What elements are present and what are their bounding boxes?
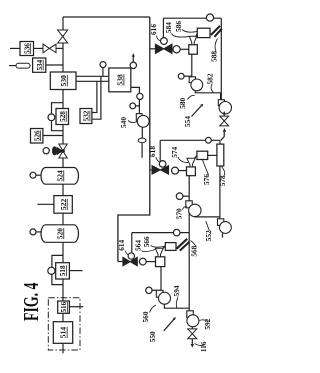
svg-text:616: 616	[149, 24, 158, 35]
wire vent line above 538	[132, 56, 134, 62]
wire 530-538 upper	[76, 75, 109, 77]
controller box 536	[20, 42, 34, 56]
pump 582	[189, 77, 203, 91]
instrument circle after 614	[139, 258, 146, 265]
arrow line 554	[192, 105, 202, 116]
svg-text:566: 566	[142, 236, 151, 247]
wire pump 582 discharge	[195, 90, 220, 99]
instrument circle at pump 582 suction	[178, 73, 184, 79]
vessel 524	[41, 168, 79, 185]
wire to feeder 574	[179, 170, 187, 172]
wire gauge stub 570	[183, 195, 189, 197]
controller box 534	[33, 58, 46, 72]
valve product outlet	[188, 329, 197, 339]
wire 524 to 522	[62, 184, 64, 195]
actuator circle of valve 616	[161, 38, 168, 45]
wire 528 to valve	[62, 125, 64, 145]
svg-text:520: 520	[55, 228, 64, 239]
separator box 538	[109, 68, 131, 92]
hopper funnel of 564	[155, 248, 163, 257]
leader 566	[151, 246, 166, 248]
instrument circle on bottom header	[173, 229, 180, 236]
svg-text:530: 530	[59, 75, 68, 87]
instrument circle on top-right header	[206, 14, 213, 21]
svg-text:552: 552	[204, 230, 213, 241]
vessel 520	[41, 225, 79, 243]
instrument circle on 518 bypass	[48, 267, 55, 274]
valve main control valve	[59, 144, 67, 158]
actuator circle	[43, 148, 49, 154]
wire pump 570 discharge	[195, 215, 220, 218]
svg-text:582: 582	[205, 73, 214, 84]
wire feeder 574 down-line	[188, 176, 190, 311]
wire 576 to column	[208, 154, 217, 156]
wire inlet to 536	[10, 47, 20, 49]
wire 518 to 516	[62, 279, 64, 301]
controller box 528	[56, 109, 69, 125]
leader 564	[142, 249, 157, 252]
leader 588	[215, 39, 217, 52]
svg-text:524: 524	[55, 170, 64, 181]
wire bypass bracket around 518	[52, 255, 63, 284]
wire top-right header	[163, 17, 221, 19]
wire actuator stem 618	[159, 140, 161, 161]
svg-text:526: 526	[33, 130, 41, 141]
svg-text:580: 580	[178, 97, 187, 108]
instrument circle after 616	[173, 46, 180, 53]
wire right recycle riser	[220, 18, 222, 100]
instrument circle left of 524	[30, 172, 36, 178]
inline element capsule on 534 feed	[16, 63, 30, 68]
leader 614	[125, 251, 129, 256]
wire outlet below valve	[191, 339, 193, 344]
wire pump 552 outlet stub	[222, 233, 224, 237]
hopper funnel of 574	[187, 158, 195, 167]
actuator wedge on main valve	[57, 147, 63, 156]
valve top-left vertical	[58, 30, 68, 43]
svg-text:570: 570	[174, 208, 183, 219]
svg-text:574: 574	[170, 146, 179, 157]
wire 530 to 528	[62, 90, 64, 109]
exchanger rect 586	[197, 28, 210, 37]
pump 560	[156, 290, 170, 304]
feeder hopper box 584	[189, 45, 198, 55]
instrument circle above 530-538 line	[100, 62, 106, 68]
wire gauge stub 582	[184, 75, 192, 77]
wire mid-right header	[160, 139, 220, 141]
wire feeder 564 down-line	[160, 267, 162, 291]
pump 580	[218, 100, 231, 114]
controller box 532	[80, 109, 92, 124]
arrowhead up into pump 580	[223, 111, 226, 115]
instrument circle left of 520	[30, 229, 36, 235]
wire pump 580 suction below	[223, 114, 225, 116]
leader 574	[178, 157, 188, 163]
svg-text:514: 514	[59, 327, 68, 339]
instrument circle on 538 vent	[130, 62, 136, 68]
leader 592	[200, 320, 209, 322]
wire left inlet to 522	[37, 203, 54, 205]
svg-text:538: 538	[116, 74, 125, 86]
leader 578	[222, 167, 225, 176]
wire bottom header	[132, 232, 189, 234]
pump 570	[186, 201, 201, 217]
wire drop B to 532	[92, 76, 101, 119]
instrument circle at 560 suction	[146, 287, 152, 293]
leader 576	[203, 160, 209, 175]
svg-text:516: 516	[60, 301, 68, 312]
arrowhead 550	[173, 317, 176, 320]
leader 586	[182, 30, 197, 33]
svg-text:536: 536	[23, 43, 31, 54]
svg-text:116: 116	[199, 341, 208, 352]
wire valve to vessel 524	[62, 158, 64, 169]
wire 538 to pump 540	[131, 87, 140, 113]
instrument circle beside 538-540 line	[130, 103, 136, 109]
box 516	[58, 301, 70, 313]
leader 116	[195, 344, 205, 346]
wire main to valve 618	[150, 169, 152, 171]
box 514	[53, 322, 72, 344]
wire top header from left valve to main riser	[63, 16, 150, 18]
wire left column riser above reactor 530	[62, 17, 64, 74]
wire actuator stem 614	[131, 233, 133, 254]
valve 614 filled	[123, 257, 137, 266]
svg-text:–594: –594	[172, 285, 181, 301]
wire below 514	[62, 343, 64, 353]
box 518	[56, 263, 70, 279]
hopper funnel of 584	[189, 36, 196, 45]
leader 552	[206, 221, 210, 231]
wire 526 to main line	[43, 135, 63, 137]
arrowhead 554	[200, 104, 203, 107]
instrument circle on 528 bypass	[48, 114, 55, 121]
dash-dot battery-limit box	[48, 298, 80, 350]
exchanger rect 566	[165, 243, 176, 251]
wire drop A to 532	[92, 81, 97, 112]
svg-text:576: 576	[202, 174, 211, 185]
leader 582	[211, 84, 213, 93]
instrument circle on 538-540 line	[137, 93, 143, 99]
wire 584 down to pump 582	[191, 54, 193, 77]
leader 560	[150, 305, 157, 313]
hatch mark 588	[211, 26, 222, 37]
valve below pump 580	[220, 116, 229, 126]
leader for 540	[128, 121, 137, 123]
wire 520 to 518	[62, 242, 64, 262]
wire gauge stub 560	[152, 289, 161, 291]
wire to feeder 584	[180, 48, 189, 50]
wire valve to riser	[56, 47, 63, 49]
wire into pump 552	[219, 217, 221, 219]
leader 570	[182, 207, 187, 210]
box 522	[54, 196, 72, 214]
svg-text:618: 618	[148, 146, 157, 157]
wire below valve 580	[221, 132, 224, 141]
valve center dot	[61, 149, 65, 153]
svg-text:568: 568	[190, 245, 199, 256]
instrument circle at 570 suction	[176, 193, 183, 200]
actuator circle of valve 618	[159, 161, 166, 168]
actuator circle of valve 614	[128, 253, 134, 259]
check valve ellipse on drain	[138, 138, 146, 143]
pump 592	[187, 311, 199, 327]
arrowhead up below valve 580	[223, 128, 226, 132]
wire right outlet of 516	[69, 306, 83, 308]
svg-text:528: 528	[59, 111, 67, 122]
wire drain continues	[141, 143, 143, 158]
leader 568	[191, 241, 197, 247]
leader 584	[172, 34, 190, 38]
wire stub to 524 gauge	[36, 174, 41, 176]
arrowhead outlet down	[191, 344, 194, 348]
wire stub to side instrument	[136, 105, 140, 107]
wire column top stub	[219, 140, 221, 144]
wire 534 to riser	[46, 64, 63, 66]
wire pump 540 drain	[141, 127, 143, 138]
svg-text:534: 534	[36, 59, 44, 70]
svg-text:550: 550	[148, 331, 157, 342]
wire 530-538 lower	[76, 80, 109, 82]
controller box 526	[31, 129, 43, 144]
column vessel 578	[217, 144, 224, 166]
svg-text:578: 578	[218, 175, 227, 186]
feeder hopper box 564	[156, 257, 165, 267]
wire column bottom to junction	[219, 166, 221, 217]
wire stub to 520 gauge	[36, 231, 41, 233]
instrument circle on mid header	[206, 137, 212, 143]
actuator ellipse on main valve	[52, 146, 57, 155]
wire funnel to 566 stub	[163, 246, 166, 248]
svg-text:586: 586	[174, 21, 183, 32]
wire funnel to 576 stub	[195, 156, 197, 159]
wire main to valve 614	[118, 261, 123, 263]
leader 594	[176, 298, 177, 308]
valve 616 filled	[155, 44, 172, 53]
pump 540	[136, 114, 149, 128]
wire main center line with jog	[118, 17, 150, 262]
leader 618	[156, 157, 161, 163]
valve hand valve after 536	[43, 44, 56, 53]
hatch mark 568	[177, 239, 190, 251]
wire inlet to capsule	[9, 65, 16, 67]
svg-text:554: 554	[183, 116, 192, 127]
arrow line 550	[164, 319, 175, 331]
exchanger rect 576	[197, 151, 208, 159]
arrowhead vent up	[132, 53, 135, 57]
wire funnel to 586 stub	[196, 33, 197, 36]
leader 580	[188, 95, 195, 99]
svg-text:588: 588	[209, 51, 218, 62]
leader 616	[157, 36, 161, 42]
feeder hopper box 574	[187, 167, 196, 176]
svg-text:FIG. 4: FIG. 4	[19, 282, 43, 321]
wire right outlet of 518	[69, 270, 82, 272]
svg-text:560: 560	[141, 311, 150, 322]
wire pump 560 discharge	[164, 304, 189, 308]
svg-text:584: 584	[164, 22, 173, 33]
wire main to valve 616	[150, 48, 156, 50]
wire pump 592 to valve	[191, 327, 193, 329]
svg-text:614: 614	[117, 239, 126, 250]
wire gauge stem above 530-538 line	[102, 68, 104, 77]
wire 516 to 514	[62, 313, 64, 321]
svg-text:522: 522	[59, 199, 68, 211]
svg-text:532: 532	[83, 110, 91, 121]
reactor box 530	[50, 72, 76, 90]
pump 552	[218, 219, 232, 234]
wire bypass bracket around 528	[52, 103, 64, 131]
svg-text:518: 518	[59, 265, 67, 276]
valve 618 filled	[152, 166, 169, 175]
wire to feeder 564	[146, 261, 155, 263]
svg-text:540: 540	[119, 117, 128, 128]
wire actuator stem 616	[162, 18, 164, 38]
wire 522 to 520	[62, 213, 64, 225]
wire 536 to hand valve	[34, 47, 44, 49]
instrument circle after 618	[172, 167, 179, 174]
